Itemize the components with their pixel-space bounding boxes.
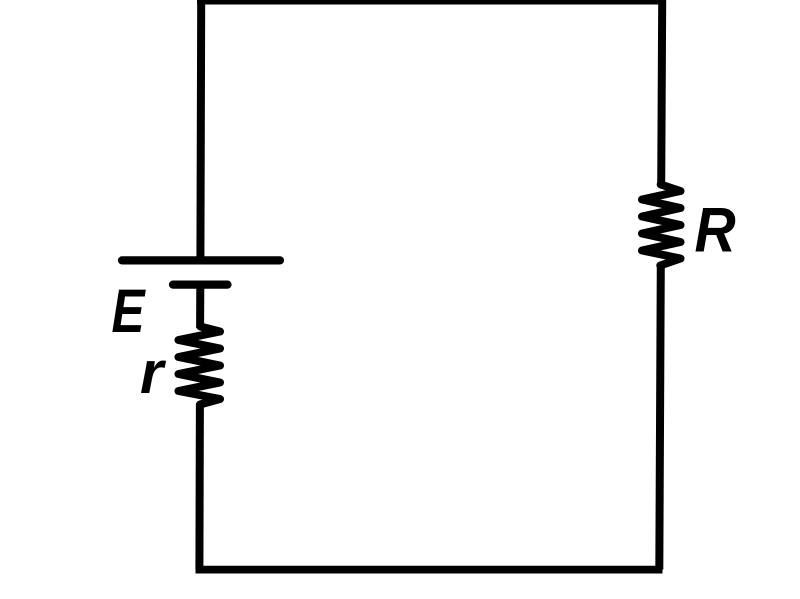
label R: [695, 195, 736, 265]
battery E: short negative plate: [173, 281, 228, 289]
wire: right branch lower segment: [659, 265, 661, 570]
svg-text:R: R: [695, 195, 736, 265]
resistor R zigzag: [642, 185, 681, 266]
svg-text:E: E: [112, 276, 147, 345]
battery E: long positive plate: [122, 256, 280, 264]
label r: [140, 339, 167, 406]
svg-text:r: r: [140, 339, 167, 406]
wire: right branch upper segment: [661, 0, 662, 186]
resistor r (internal resistance) zigzag: [179, 327, 221, 405]
wire: left branch between battery and resistor r: [196, 285, 204, 328]
wire: bottom horizontal: [196, 566, 663, 574]
wire: left branch upper segment: [196, 0, 205, 263]
wire: left branch lower segment: [195, 403, 204, 570]
label E (EMF): [112, 276, 147, 345]
wire: top horizontal: [197, 0, 666, 5]
